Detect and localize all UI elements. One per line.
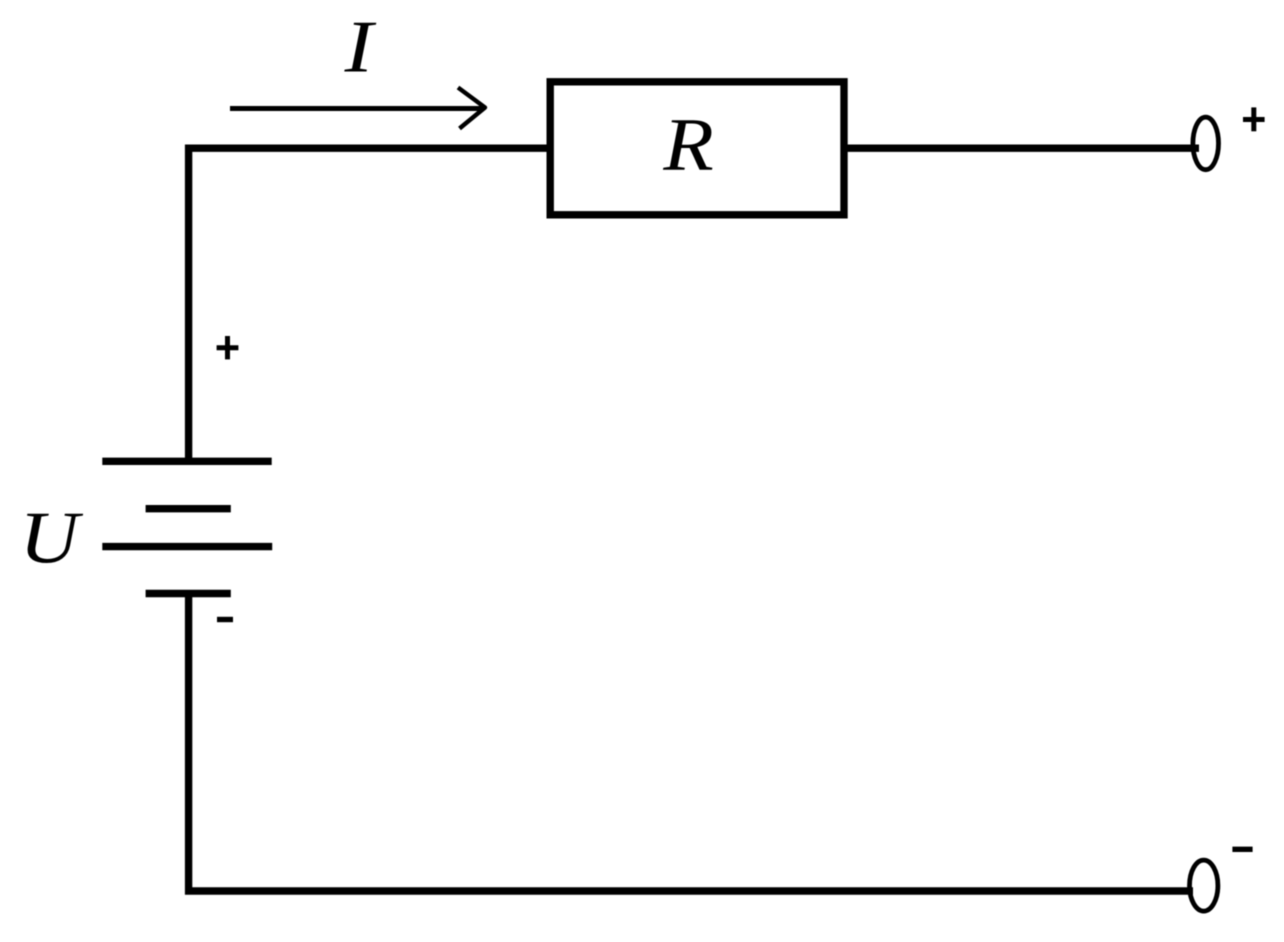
svg-text:R: R <box>662 104 713 187</box>
svg-text:U: U <box>19 496 83 578</box>
svg-text:I: I <box>344 7 377 89</box>
